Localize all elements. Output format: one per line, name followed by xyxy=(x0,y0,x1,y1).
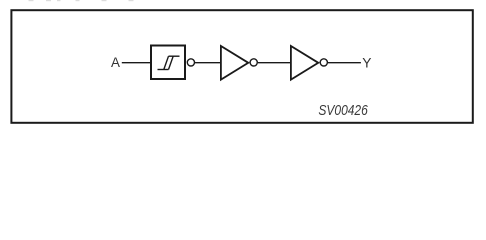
svg-text:SV00426: SV00426 xyxy=(318,103,368,119)
svg-text:Y: Y xyxy=(362,55,371,70)
svg-text:A: A xyxy=(111,55,120,70)
